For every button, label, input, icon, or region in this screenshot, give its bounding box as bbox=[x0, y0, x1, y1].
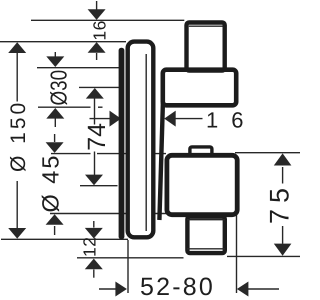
extension line lower knob top y154 right bbox=[97, 153, 166, 155]
extension line stem bottom y258 bbox=[77, 257, 184, 259]
dimension 45 vertical line bbox=[54, 134, 56, 235]
svg-text:Ø 150: Ø 150 bbox=[7, 100, 30, 172]
dimension 16 middle horizontal arrows bbox=[90, 118, 203, 120]
lower knob tab bbox=[190, 147, 212, 155]
svg-text:Ø 45: Ø 45 bbox=[38, 154, 64, 213]
dimension 12 vertical line bbox=[93, 221, 95, 278]
escutcheon plate bbox=[128, 42, 154, 238]
svg-text:16: 16 bbox=[90, 20, 110, 40]
dimension 75 arrows bbox=[274, 153, 292, 255]
dimension 150 vertical line bbox=[16, 53, 18, 228]
upper knob stem bbox=[187, 23, 225, 71]
dimension 74 arrows bbox=[85, 88, 104, 185]
dimension 30 vertical line bbox=[54, 52, 56, 127]
lower knob stem inner bottom line bbox=[187, 248, 225, 250]
lower knob stem inner top line bbox=[187, 219, 225, 221]
extension line 75 bottom bbox=[227, 255, 300, 257]
extension line lower knob top y154 left bbox=[51, 153, 91, 155]
dimension 74 vertical line bbox=[94, 98, 96, 175]
dimension 150 arrows bbox=[8, 42, 26, 238]
dimension 75 vertical line bbox=[282, 167, 284, 244]
lower knob stem bbox=[187, 217, 224, 253]
dimension 52-80 horizontal arrows bbox=[99, 288, 279, 290]
svg-text:75: 75 bbox=[265, 182, 295, 224]
extension line 75 top bbox=[235, 152, 300, 154]
upper knob block bbox=[163, 70, 236, 106]
extension line plate top y42 bbox=[0, 41, 126, 43]
extension line upper knob bottom y107 right bbox=[98, 106, 103, 108]
sleeve bar bbox=[159, 103, 163, 220]
extension line upper knob bottom y107 left bbox=[38, 106, 91, 108]
extension line 52-80 left bbox=[127, 240, 129, 293]
dimension 30 arrows bbox=[46, 56, 64, 118]
escutcheon back rim bbox=[119, 48, 125, 239]
upper knob stem inner line bbox=[189, 25, 223, 27]
extension line upper knob axis y87 bbox=[79, 86, 119, 88]
extension line plate bottom y239 bbox=[1, 238, 128, 240]
dimension 16 top arrows bbox=[88, 9, 106, 52]
lower knob block bbox=[167, 155, 237, 214]
svg-text:Ø30: Ø30 bbox=[46, 70, 72, 106]
extension line lower knob bottom y213 bbox=[50, 213, 166, 215]
svg-text:12: 12 bbox=[80, 237, 100, 257]
extension line upper knob top y68 bbox=[37, 67, 119, 69]
dimension 16 top vertical line bbox=[96, 1, 98, 60]
svg-text:16: 16 bbox=[206, 108, 256, 133]
svg-text:74: 74 bbox=[83, 123, 111, 151]
extension line 52-80 right bbox=[236, 215, 238, 293]
extension line lower knob axis y186 bbox=[80, 185, 118, 187]
dimension 12 arrows bbox=[85, 228, 103, 269]
extension line knob stem top y20 bbox=[31, 19, 184, 21]
escutcheon plate inner right contour bbox=[145, 54, 147, 231]
dimension 45 arrows bbox=[46, 142, 64, 225]
svg-text:52-80: 52-80 bbox=[140, 273, 215, 300]
